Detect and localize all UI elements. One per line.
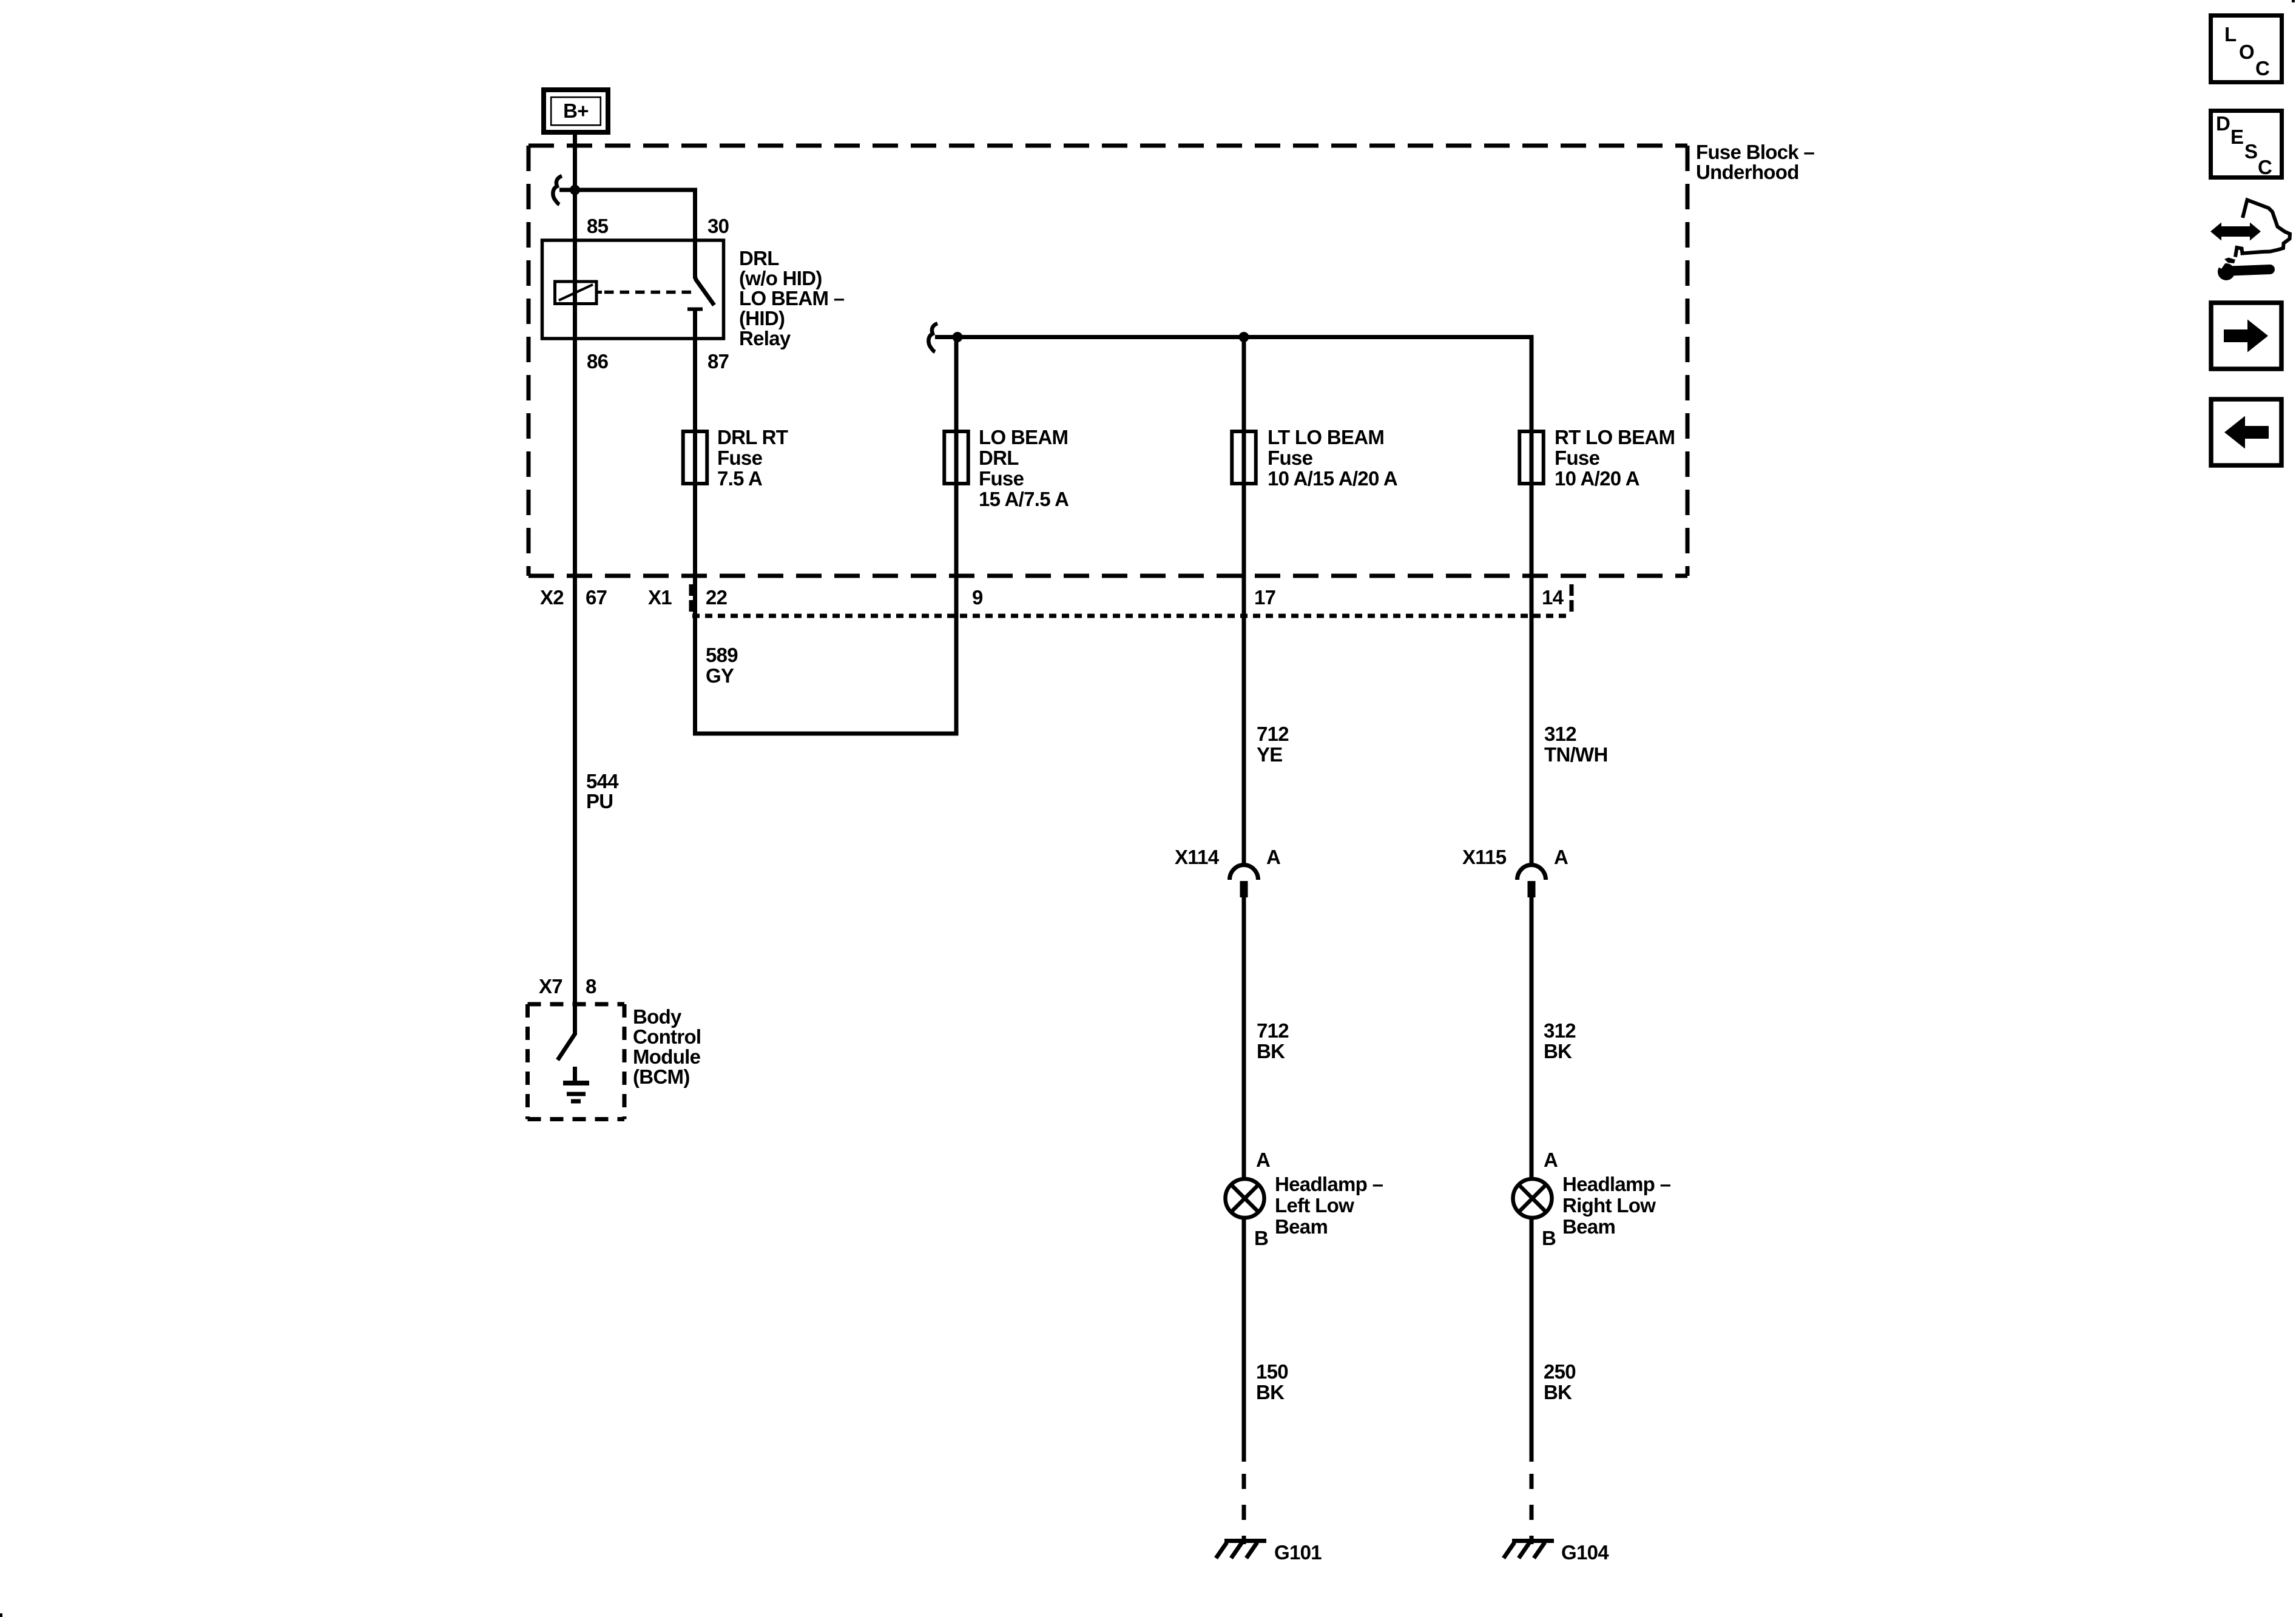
svg-text:A: A xyxy=(1544,1149,1558,1171)
wire dashed to G101 xyxy=(1242,1474,1246,1544)
svg-text:G104: G104 xyxy=(1561,1541,1609,1564)
nav icon DESC box xyxy=(2211,111,2282,178)
wire relay pin 87 down to fuse xyxy=(693,309,697,486)
svg-text:9: 9 xyxy=(972,586,983,609)
svg-text:85: 85 xyxy=(587,215,609,237)
schematic icon: double arrow xyxy=(2210,223,2261,241)
ground G104 xyxy=(1504,1541,1554,1559)
svg-text:E: E xyxy=(2230,126,2243,148)
wire 589 GY bottom jumper xyxy=(693,732,959,736)
relay fixed contact 87 xyxy=(687,308,703,311)
battery feed symbol B+ xyxy=(544,90,608,132)
node dot at LT feed xyxy=(1239,332,1249,342)
lamp E1 headlamp left low beam xyxy=(1226,1179,1264,1218)
connector X1 left tick xyxy=(689,584,694,614)
svg-text:A: A xyxy=(1266,846,1280,868)
relay K: DRL (w/o HID) LO BEAM - (HID) Relay box xyxy=(542,240,724,339)
connector X1 right tick xyxy=(1570,584,1574,614)
svg-text:67: 67 xyxy=(586,586,607,609)
wire lo beam feed bus xyxy=(935,335,1531,339)
wire B+ stem xyxy=(573,135,577,1035)
fuse F1 DRL RT xyxy=(683,431,707,484)
fuse block - underhood dashed border xyxy=(528,146,1687,576)
fuse F4 RT LO BEAM xyxy=(1519,431,1544,484)
svg-text:B: B xyxy=(1254,1227,1268,1249)
wire left lamp to ground xyxy=(1242,1219,1246,1462)
wire F1 to connector X1-22 xyxy=(693,485,697,734)
lamp E2 headlamp right low beam xyxy=(1513,1179,1552,1218)
svg-text:Fuse Block –Underhood: Fuse Block –Underhood xyxy=(1696,141,1815,183)
node junction dot xyxy=(570,185,580,195)
svg-text:A: A xyxy=(1256,1149,1270,1171)
svg-text:712BK: 712BK xyxy=(1257,1019,1289,1062)
node dot at X1-9 riser xyxy=(953,332,963,342)
stray page mark top right xyxy=(2292,0,2295,2)
svg-text:O: O xyxy=(2239,41,2254,63)
back arrow xyxy=(2224,416,2269,449)
wire right lamp to ground xyxy=(1530,1219,1534,1462)
wire LT feed down xyxy=(1242,337,1246,865)
svg-text:X1: X1 xyxy=(648,586,672,609)
svg-text:D: D xyxy=(2216,112,2230,135)
wire X115 to right lamp xyxy=(1530,897,1534,1178)
svg-text:17: 17 xyxy=(1254,586,1275,609)
svg-text:B: B xyxy=(1542,1227,1556,1249)
svg-text:S: S xyxy=(2244,140,2257,163)
svg-text:589GY: 589GY xyxy=(706,644,738,687)
wire junction horizontal to relay pin 30 xyxy=(559,190,695,279)
svg-text:X7: X7 xyxy=(539,975,562,998)
svg-text:86: 86 xyxy=(587,350,609,373)
svg-text:150BK: 150BK xyxy=(1256,1360,1288,1403)
connector X114 xyxy=(1230,865,1258,898)
BCM internal ground xyxy=(563,1067,589,1101)
svg-text:A: A xyxy=(1554,846,1568,868)
schematic icon: wrench xyxy=(2213,258,2270,281)
fuse F2 LO BEAM DRL xyxy=(944,431,968,484)
svg-text:30: 30 xyxy=(707,215,729,237)
connector X1 bottom separator dotted xyxy=(692,614,1572,618)
svg-text:C: C xyxy=(2255,57,2269,79)
connector X115 xyxy=(1518,865,1546,898)
forward arrow xyxy=(2224,320,2268,353)
svg-text:312BK: 312BK xyxy=(1544,1019,1576,1062)
svg-text:B+: B+ xyxy=(563,100,589,122)
svg-text:87: 87 xyxy=(707,350,729,373)
svg-text:C: C xyxy=(2258,156,2272,178)
svg-text:8: 8 xyxy=(586,975,596,998)
relay coil xyxy=(555,282,603,304)
stray page mark bottom left xyxy=(0,1613,2,1617)
svg-text:22: 22 xyxy=(706,586,728,609)
schematic icon: hood outline xyxy=(2235,200,2290,257)
wire X1-9 riser xyxy=(954,337,959,734)
wire dashed to G104 xyxy=(1530,1474,1534,1544)
svg-text:G101: G101 xyxy=(1274,1541,1322,1564)
clip symbol at B+ junction xyxy=(553,176,562,204)
relay switch blade xyxy=(695,277,715,305)
svg-text:X114: X114 xyxy=(1175,846,1220,868)
wire X114 to left lamp xyxy=(1242,897,1246,1178)
nav icon forward arrow box xyxy=(2211,303,2281,369)
svg-text:14: 14 xyxy=(1542,586,1564,609)
svg-text:250BK: 250BK xyxy=(1544,1360,1576,1403)
ground G101 xyxy=(1216,1541,1266,1559)
svg-text:L: L xyxy=(2224,23,2237,46)
BCM driver switch blade xyxy=(558,1034,575,1060)
relay actuator dashed link xyxy=(604,291,697,294)
nav icon LOC box xyxy=(2211,16,2282,83)
svg-text:X115: X115 xyxy=(1462,846,1507,868)
wire RT feed down xyxy=(1530,335,1534,865)
body control module BCM dashed box xyxy=(528,1004,625,1119)
nav icon back arrow box xyxy=(2211,399,2281,465)
svg-text:X2: X2 xyxy=(540,586,564,609)
fuse F3 LT LO BEAM xyxy=(1232,431,1256,484)
clip symbol at lo beam feed xyxy=(928,323,937,352)
